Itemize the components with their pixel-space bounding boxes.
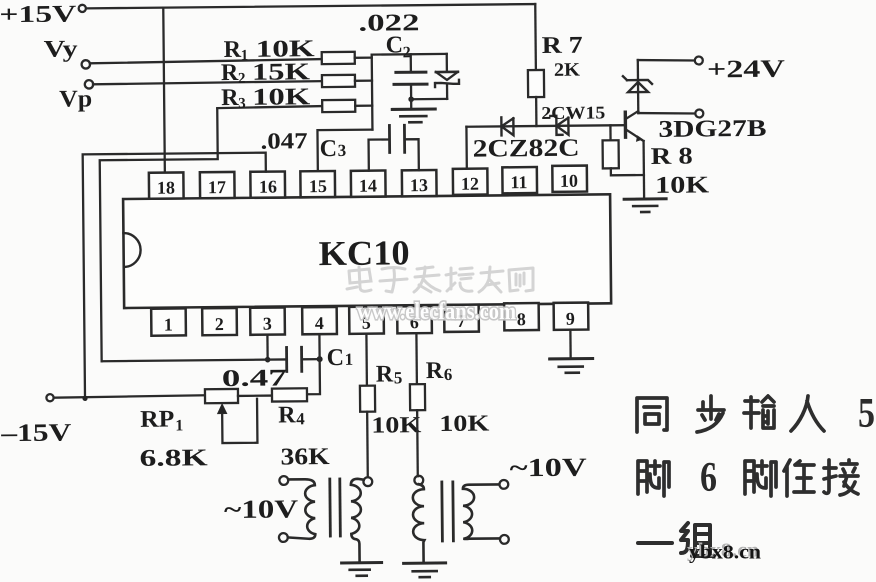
pin 14	[351, 170, 386, 196]
svg-text:10: 10	[560, 171, 578, 191]
svg-text:10K: 10K	[439, 411, 489, 436]
transformer T2 primary winding	[413, 484, 425, 563]
svg-text:15: 15	[309, 176, 327, 196]
svg-text:36K: 36K	[280, 444, 330, 470]
label R1 10K	[224, 36, 316, 64]
pin 9	[554, 303, 589, 330]
svg-text:6: 6	[444, 365, 453, 384]
svg-text:5: 5	[394, 368, 403, 387]
RP1 wiper	[218, 399, 258, 443]
wire R3 to pin3 node	[99, 109, 219, 361]
svg-text:3: 3	[238, 96, 246, 112]
svg-text:5: 5	[858, 391, 875, 437]
pin 12	[453, 169, 488, 195]
watermark elecfans chinese	[347, 267, 533, 292]
pin 4	[302, 307, 337, 334]
label R3 10K	[221, 84, 311, 112]
svg-text:Vy: Vy	[44, 36, 78, 62]
svg-text:RP: RP	[140, 407, 174, 433]
svg-text:3: 3	[338, 141, 347, 160]
pin 16	[250, 171, 285, 197]
resistor R7	[527, 4, 544, 126]
wire to +24V terminal	[638, 60, 695, 62]
svg-text:C: C	[386, 32, 404, 58]
terminal output	[695, 109, 703, 117]
svg-text:12: 12	[461, 174, 479, 194]
caption glyph jiao2a	[638, 461, 669, 496]
zener D2 2CW15	[550, 116, 568, 135]
svg-text:1: 1	[345, 350, 354, 369]
zener D4	[623, 76, 652, 92]
diode D1 2CZ82C	[501, 117, 513, 135]
caption glyph jiao2b	[745, 461, 776, 496]
wire pin16 to -15V rail	[83, 153, 268, 399]
ground T1	[342, 563, 382, 576]
svg-text:10K: 10K	[252, 84, 311, 111]
svg-text:2CZ82C: 2CZ82C	[473, 135, 580, 163]
caption glyph zu	[681, 523, 714, 556]
svg-text:11: 11	[510, 172, 527, 192]
svg-text:18: 18	[157, 178, 175, 198]
label C2	[386, 32, 411, 61]
svg-text:.047: .047	[260, 128, 307, 153]
pin 17	[200, 172, 235, 198]
svg-text:10K: 10K	[371, 412, 421, 437]
svg-text:~10V: ~10V	[510, 453, 588, 483]
svg-text:15K: 15K	[252, 59, 311, 86]
resistor R8	[602, 125, 643, 175]
wire RP1 to R4	[238, 394, 272, 397]
transformer T2 core	[442, 482, 454, 541]
wire R5 to T1	[366, 412, 369, 477]
wire +15V rail	[86, 4, 535, 8]
resistor R2	[322, 75, 355, 87]
svg-text:13: 13	[410, 175, 428, 195]
IC U1 KC10 body	[123, 194, 611, 308]
pin 7	[444, 305, 479, 332]
label C1	[327, 345, 354, 371]
terminal Vy	[82, 60, 90, 68]
svg-text:C: C	[320, 136, 338, 162]
pin 5	[349, 307, 384, 334]
caption glyph bu	[697, 396, 724, 432]
pin 13	[402, 170, 437, 196]
pin 18	[149, 172, 184, 198]
svg-text:14: 14	[359, 176, 377, 196]
wire node to C2	[372, 53, 447, 56]
caption glyph ren	[784, 460, 814, 496]
svg-text:2K: 2K	[554, 60, 580, 81]
svg-text:R: R	[221, 85, 239, 111]
svg-text:R: R	[426, 358, 444, 384]
caption line 1: tong bu shu ru 5	[637, 391, 875, 437]
ground Q1 emitter	[624, 199, 666, 212]
pin 2	[202, 308, 237, 335]
svg-text:4: 4	[296, 409, 305, 428]
svg-text:~10V: ~10V	[224, 494, 299, 524]
transformer T1 secondary terminal	[363, 477, 372, 486]
svg-text:3DG27B: 3DG27B	[658, 116, 766, 143]
pin 10	[552, 166, 587, 192]
node C2 ground junction	[408, 96, 414, 102]
svg-text:2CW15: 2CW15	[541, 102, 605, 123]
capacitor C3	[368, 125, 418, 170]
caption line 3: yi zu	[638, 523, 714, 556]
pin 1	[151, 308, 186, 335]
transformer T2 primary terminal	[414, 476, 423, 485]
svg-text:1: 1	[241, 48, 249, 64]
caption glyph tong	[637, 398, 667, 432]
svg-text:R: R	[376, 361, 394, 387]
potentiometer RP1	[205, 389, 238, 403]
svg-text:16: 16	[259, 177, 277, 197]
wire Vp to R2	[93, 81, 322, 84]
label R2 15K	[221, 59, 311, 87]
svg-text:17: 17	[208, 177, 226, 197]
svg-text:ybx8.cn: ybx8.cn	[689, 542, 761, 564]
wire pin5 down	[365, 334, 368, 386]
svg-text:10K: 10K	[655, 172, 710, 199]
transformer T2 secondary terminal bottom	[500, 535, 509, 544]
label R4	[278, 402, 305, 428]
wire R3 left leg	[217, 106, 322, 108]
wire bus to pin 15	[317, 130, 372, 172]
caption glyph shu	[744, 396, 774, 428]
wire bus node	[371, 55, 374, 130]
svg-text:8: 8	[517, 309, 526, 329]
terminal +15V	[79, 5, 86, 12]
resistor R1	[322, 52, 355, 64]
transformer T2 secondary terminal top	[499, 480, 508, 489]
wire diode base line	[466, 125, 624, 127]
pin 8	[504, 303, 539, 330]
ground T2	[404, 563, 446, 577]
node pin3 junction	[265, 357, 271, 363]
svg-text:9: 9	[566, 309, 575, 329]
transformer T2 secondary winding	[463, 484, 500, 539]
wire collector to output terminal	[638, 113, 695, 115]
wire pin3 down	[266, 335, 269, 360]
transformer T1 core	[330, 479, 341, 536]
pin 15	[300, 171, 335, 197]
terminal -15V	[46, 394, 53, 401]
svg-text:1: 1	[164, 315, 173, 335]
resistor R3	[322, 100, 355, 112]
resistor R6	[410, 384, 425, 410]
transformer T1 primary terminal top	[279, 476, 288, 485]
terminal Vp	[85, 80, 93, 88]
svg-text:6: 6	[700, 455, 717, 501]
wire pin6 down	[415, 333, 418, 384]
ground pin9	[550, 359, 593, 373]
capacitor C1	[287, 347, 320, 371]
transformer T1 secondary winding	[351, 479, 365, 562]
wire Vy to R1	[90, 59, 322, 63]
label R5	[376, 361, 403, 387]
pin 3	[250, 307, 285, 334]
wire +15V to pin 18	[163, 8, 165, 173]
capacitor C2	[394, 54, 427, 99]
wire R3 to bus	[355, 104, 372, 106]
transformer T1 primary terminal bottom	[279, 533, 288, 542]
label RP1	[140, 406, 183, 434]
wire -15V to RP1	[54, 395, 205, 397]
svg-text:Vp: Vp	[59, 86, 92, 112]
pin 6	[397, 306, 432, 333]
transistor Q1 3DG27B	[625, 111, 644, 197]
wire R6 to T2	[416, 410, 419, 476]
ground C2	[392, 99, 435, 122]
svg-text:2: 2	[403, 44, 411, 61]
svg-text:3: 3	[263, 314, 272, 334]
caption glyph jie	[824, 460, 858, 495]
transformer T1 primary winding	[288, 479, 316, 539]
wire R2 to bus	[355, 79, 372, 81]
node -15V junction	[82, 396, 87, 401]
svg-text:www.elecfans.com: www.elecfans.com	[357, 299, 516, 325]
caption glyph yi	[638, 541, 672, 545]
wire R1 to bus	[355, 56, 372, 58]
pin 11	[502, 167, 537, 193]
terminal +24V	[695, 56, 703, 64]
svg-text:2: 2	[215, 314, 224, 334]
wire pin9 down	[569, 330, 572, 359]
svg-text:–15V: –15V	[0, 420, 71, 448]
wire base line to pin 12	[465, 127, 468, 170]
caption line 2: jiao 6 jiao ren jie	[638, 455, 858, 501]
wire pin4 to R4	[306, 334, 320, 394]
svg-text:6.8K: 6.8K	[139, 445, 208, 472]
svg-text:C: C	[327, 345, 345, 371]
caption glyph ru	[791, 396, 824, 431]
wire collector node	[637, 60, 640, 113]
svg-text:2: 2	[238, 71, 246, 87]
resistor R5	[360, 386, 375, 412]
svg-text:+24V: +24V	[707, 56, 785, 84]
svg-text:+15V: +15V	[0, 1, 77, 28]
svg-text:R 7: R 7	[542, 33, 583, 59]
zener D3	[435, 54, 459, 99]
wire C2 zener bottom	[411, 98, 447, 101]
svg-text:R: R	[278, 402, 296, 428]
svg-text:4: 4	[315, 313, 324, 333]
node C1 junction	[317, 356, 323, 362]
wire pin3 node to C1	[102, 359, 286, 361]
label C3	[320, 136, 347, 162]
IC notch	[123, 233, 140, 267]
svg-text:R: R	[221, 60, 239, 86]
resistor R4	[272, 388, 307, 401]
svg-text:1: 1	[175, 417, 183, 434]
svg-text:R 8: R 8	[651, 144, 693, 170]
label R6	[426, 358, 453, 384]
